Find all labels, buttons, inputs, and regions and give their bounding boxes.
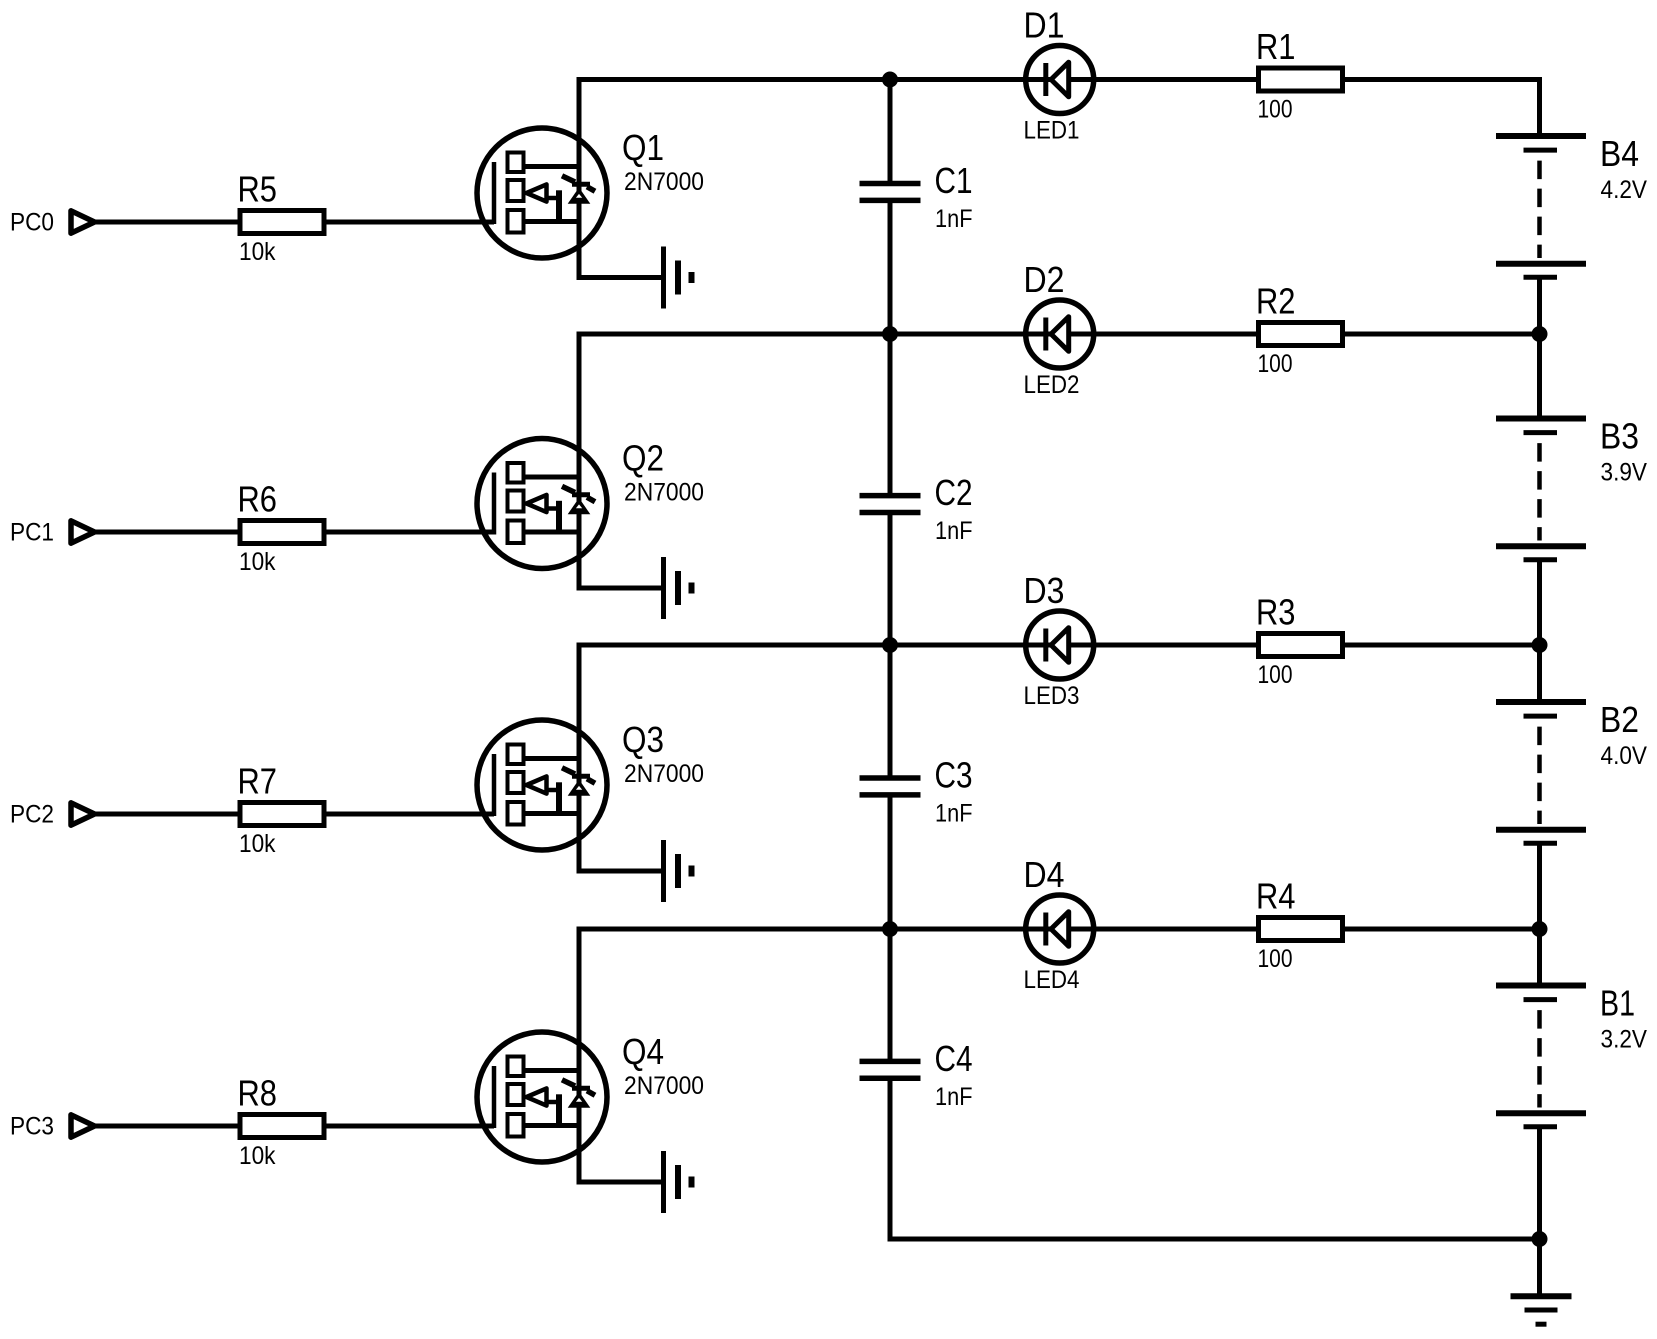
svg-text:Q4: Q4 xyxy=(622,1031,664,1072)
resistor R8 10k xyxy=(240,1115,324,1138)
svg-text:Q2: Q2 xyxy=(622,438,664,479)
wire bus segment 3 xyxy=(888,513,893,779)
wire Q4 drain/source vertical and source lead xyxy=(579,927,661,1183)
wire row 4: Q4 drain to battery column xyxy=(579,927,1542,932)
svg-text:R2: R2 xyxy=(1256,281,1296,322)
svg-text:3.2V: 3.2V xyxy=(1601,1025,1648,1053)
wire PC0 input to R5 to Q1 gate xyxy=(93,220,494,225)
transistor Q1 (2N7000 N-MOSFET) xyxy=(477,128,607,258)
wire row 2: Q2 drain to battery column xyxy=(579,332,1542,337)
svg-text:PC2: PC2 xyxy=(10,801,54,829)
svg-text:R5: R5 xyxy=(238,169,278,210)
junction node bus/row1 xyxy=(882,72,898,88)
svg-text:R6: R6 xyxy=(238,479,278,520)
svg-text:B1: B1 xyxy=(1600,982,1635,1023)
svg-text:2N7000: 2N7000 xyxy=(624,760,704,788)
svg-text:LED4: LED4 xyxy=(1024,966,1080,994)
svg-text:C3: C3 xyxy=(935,755,973,796)
svg-text:10k: 10k xyxy=(239,1142,276,1170)
svg-text:PC3: PC3 xyxy=(10,1113,54,1141)
wire bus segment 1 xyxy=(888,80,893,184)
battery B4 4.2V xyxy=(1496,80,1586,335)
svg-text:D4: D4 xyxy=(1024,854,1065,895)
junction node bus/row4 xyxy=(882,921,898,937)
battery B3 3.9V xyxy=(1496,334,1586,645)
input port PC2 xyxy=(71,803,95,825)
svg-text:4.2V: 4.2V xyxy=(1601,176,1648,204)
svg-text:C4: C4 xyxy=(935,1038,973,1079)
svg-text:R7: R7 xyxy=(238,761,278,802)
svg-text:1nF: 1nF xyxy=(935,517,973,545)
svg-text:1nF: 1nF xyxy=(935,1083,973,1111)
resistor R7 10k xyxy=(240,803,324,826)
svg-text:10k: 10k xyxy=(239,830,276,858)
wire PC2 input to R7 to Q3 gate xyxy=(93,812,494,817)
LED D3 xyxy=(1026,611,1094,679)
svg-text:2N7000: 2N7000 xyxy=(624,168,704,196)
wire PC1 input to R6 to Q2 gate xyxy=(93,530,494,535)
svg-text:10k: 10k xyxy=(239,548,276,576)
svg-text:D3: D3 xyxy=(1024,570,1065,611)
svg-text:C1: C1 xyxy=(935,160,973,201)
ground at Q1 source xyxy=(664,247,692,309)
ground at Q2 source xyxy=(664,557,692,619)
wire bus segment 4 xyxy=(888,795,893,1062)
junction node bus/row2 xyxy=(882,326,898,342)
resistor R3 100 xyxy=(1259,634,1343,657)
wire bus segment 2 xyxy=(888,200,893,495)
capacitor C4 1nF xyxy=(860,1061,921,1078)
resistor R5 10k xyxy=(240,211,324,234)
svg-text:10k: 10k xyxy=(239,238,276,266)
earth ground at battery column bottom xyxy=(1511,1239,1572,1324)
svg-text:R3: R3 xyxy=(1256,592,1296,633)
svg-text:100: 100 xyxy=(1258,96,1293,124)
junction node battery column/row3 xyxy=(1532,637,1548,653)
wire Q2 drain/source vertical and source lead xyxy=(579,332,661,589)
input port PC1 xyxy=(71,521,95,543)
wire row 1: Q1 drain to battery column xyxy=(579,77,1542,82)
svg-text:LED3: LED3 xyxy=(1024,682,1080,710)
svg-text:D2: D2 xyxy=(1024,259,1065,300)
svg-text:PC0: PC0 xyxy=(10,209,54,237)
svg-text:1nF: 1nF xyxy=(935,800,973,828)
svg-text:R8: R8 xyxy=(238,1073,278,1114)
svg-text:1nF: 1nF xyxy=(935,205,973,233)
ground at Q3 source xyxy=(664,840,692,902)
LED D2 xyxy=(1026,300,1094,368)
svg-text:2N7000: 2N7000 xyxy=(624,479,704,507)
input port PC0 xyxy=(71,211,95,233)
svg-text:C2: C2 xyxy=(935,472,973,513)
svg-text:Q3: Q3 xyxy=(622,719,664,760)
battery B1 3.2V xyxy=(1496,929,1586,1239)
svg-text:3.9V: 3.9V xyxy=(1601,458,1648,486)
svg-text:100: 100 xyxy=(1258,350,1293,378)
capacitor C3 1nF xyxy=(860,778,921,795)
capacitor C2 1nF xyxy=(860,496,921,513)
junction node battery column/bottom wire xyxy=(1532,1231,1548,1247)
input port PC3 xyxy=(71,1115,95,1137)
wire PC3 input to R8 to Q4 gate xyxy=(93,1124,494,1129)
transistor Q2 (2N7000 N-MOSFET) xyxy=(477,439,607,569)
junction node battery column/row4 xyxy=(1532,921,1548,937)
svg-text:LED2: LED2 xyxy=(1024,371,1080,399)
transistor Q3 (2N7000 N-MOSFET) xyxy=(477,720,607,850)
wire bus bottom segment and bottom return wire xyxy=(890,1078,1540,1239)
resistor R2 100 xyxy=(1259,323,1343,346)
ground at Q4 source xyxy=(664,1151,692,1213)
wire Q3 drain/source vertical and source lead xyxy=(579,643,661,872)
resistor R4 100 xyxy=(1259,918,1343,941)
resistor R1 100 xyxy=(1259,68,1343,91)
svg-text:4.0V: 4.0V xyxy=(1601,742,1648,770)
LED D1 xyxy=(1026,46,1094,114)
svg-text:100: 100 xyxy=(1258,945,1293,973)
wire row 3: Q3 drain to battery column xyxy=(579,643,1542,648)
wire Q1 drain/source vertical and source lead xyxy=(579,77,661,278)
transistor Q4 (2N7000 N-MOSFET) xyxy=(477,1032,607,1162)
svg-text:R1: R1 xyxy=(1256,26,1296,67)
junction node bus/row3 xyxy=(882,637,898,653)
battery B2 4.0V xyxy=(1496,645,1586,929)
svg-text:Q1: Q1 xyxy=(622,127,664,168)
junction node battery column/row2 xyxy=(1532,326,1548,342)
svg-text:D1: D1 xyxy=(1024,5,1065,46)
svg-text:B4: B4 xyxy=(1600,133,1639,174)
LED D4 xyxy=(1026,895,1094,963)
svg-text:100: 100 xyxy=(1258,661,1293,689)
capacitor C1 1nF xyxy=(860,184,921,201)
svg-text:B3: B3 xyxy=(1600,415,1639,456)
resistor R6 10k xyxy=(240,521,324,544)
svg-text:LED1: LED1 xyxy=(1024,117,1080,145)
svg-text:2N7000: 2N7000 xyxy=(624,1072,704,1100)
svg-text:B2: B2 xyxy=(1600,699,1639,740)
svg-text:R4: R4 xyxy=(1256,876,1296,917)
svg-text:PC1: PC1 xyxy=(10,519,54,547)
